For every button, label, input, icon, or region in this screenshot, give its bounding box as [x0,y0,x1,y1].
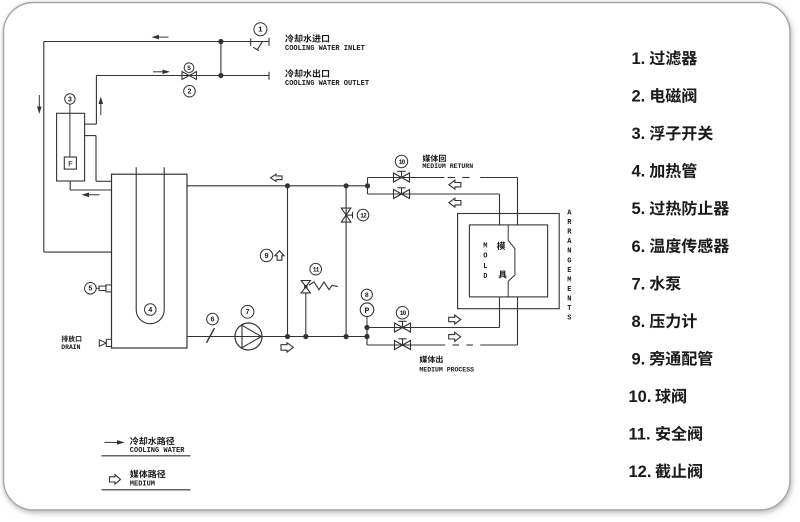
svg-text:M: M [483,243,487,251]
svg-text:9.: 9. [632,350,646,368]
flow arrow down on left pipe [37,95,42,114]
svg-text:S: S [187,65,191,72]
pipe: bottom horizontal into tank [44,251,112,253]
legend item 9 旁通配管 [632,350,713,368]
label circle 10 process [396,307,408,319]
svg-text:1: 1 [258,27,263,35]
flow arrow hollow right process upper [449,315,461,324]
label circle 11 [310,263,322,275]
legend item 2 电磁阀 [632,88,697,106]
svg-text:D: D [483,273,487,281]
flow arrow hollow left return upper [449,180,461,189]
pressure gauge 8 stem [366,316,368,327]
label circle 9 [260,249,272,261]
flow arrow left under float pipe [82,193,100,198]
mold inner box [469,225,547,297]
cooling inlet label [285,34,365,53]
bypass pipe 9 vertical [287,186,289,337]
cooling outlet label [285,69,369,88]
pipe: lower process up to mold [517,297,519,345]
label circle 8 [361,289,372,300]
pipe: left vertical drop [43,42,45,253]
arrangements text [567,210,572,323]
heater element 4 U-tube [136,167,164,323]
svg-text:N: N [567,248,571,256]
junction vertical between inlet and outlet [220,42,222,76]
pipe: upper return branch [368,177,445,179]
safety valve 11 stub [305,293,307,337]
safety valve 11 spring [309,282,338,290]
flow arrow up beside drop pipe [99,97,104,116]
svg-text:E: E [567,286,571,294]
legend underline 2 [102,489,191,491]
pressure gauge 8 dial [360,303,374,317]
end cap outlet [268,72,270,80]
flow arrow left on inlet [152,35,169,40]
junction dot process branch [364,334,369,339]
legend item 8 压力计 [632,313,697,331]
mold outer box [458,214,560,309]
legend item 7 水泵 [632,275,681,293]
float switch stem [69,104,71,157]
label circle 2 [184,85,196,97]
junction dot bypass bottom [285,334,290,339]
pipe: lower return branch [368,193,500,195]
ball valve 10 upper return [394,171,410,182]
svg-text:M: M [567,276,571,284]
svg-text:9: 9 [264,253,268,261]
svg-text:4.: 4. [632,163,646,181]
legend cooling arrow [105,440,125,445]
pipe: upper process up to mold [499,297,501,328]
svg-text:N: N [567,295,571,303]
mold MOLD text [483,243,487,282]
svg-text:DRAIN: DRAIN [61,344,80,351]
junction dot safety stub [303,334,308,339]
legend medium arrow [110,475,121,485]
legend item 12 截止阀 [629,463,703,481]
end cap inlet [268,38,270,46]
junction dot inlet [218,39,223,44]
ball valve 10d lower process [395,339,411,350]
ball valve 10b lower return [394,188,410,199]
legend cooling text [130,437,185,455]
flow arrow hollow right process lower [449,332,461,341]
strainer 1 tick [250,38,252,45]
svg-text:MEDIUM RETURN: MEDIUM RETURN [422,163,473,170]
float switch 3 box [57,113,85,181]
svg-text:E: E [567,267,571,275]
process branch vertical [366,328,369,346]
svg-text:7.: 7. [632,275,646,293]
pipe: upper return down to mold [517,178,519,225]
svg-text:T: T [567,305,571,313]
label circle 12 [357,209,369,221]
junction dot valve12 top [344,183,349,188]
label circle 10 return [395,155,407,167]
svg-text:11.: 11. [629,426,651,444]
svg-text:12.: 12. [629,463,652,481]
tank body [112,174,188,348]
pipe: float chamber bottom drain to tank [70,181,111,190]
pipe: pump suction line [187,336,367,338]
ball valve 10c upper process [395,321,411,332]
legend item 10 球阀 [629,388,687,406]
pipe: float chamber mid stub to tank [85,136,112,182]
legend item 3 浮子开关 [632,125,714,143]
svg-text:COOLING WATER OUTLET: COOLING WATER OUTLET [285,80,369,88]
process labels [419,356,474,374]
stop valve 12 pipe [345,186,347,337]
legend item 4 加热管 [632,163,697,181]
legend item 11 安全阀 [629,426,703,444]
flow arrow hollow left on return line [271,174,283,181]
svg-text:COOLING WATER INLET: COOLING WATER INLET [285,45,365,53]
label circle 5 [85,283,97,295]
svg-text:5.: 5. [632,200,646,218]
legend underline 1 [102,455,191,457]
flow arrow right on outlet [153,70,170,75]
junction dot return branch [365,183,370,188]
float sensor F box [64,157,76,170]
label circle 1 [254,23,267,36]
svg-text:10.: 10. [629,388,652,406]
svg-text:1.: 1. [632,50,646,68]
junction dot bypass top [285,183,290,188]
legend item 1 过滤器 [632,50,698,68]
pipe: outlet drop to float chamber [85,76,97,125]
flow arrow hollow up on bypass [275,251,284,261]
svg-text:COOLING WATER: COOLING WATER [130,447,185,455]
pipe: tank outlet top line [187,185,368,187]
svg-text:G: G [567,257,571,265]
junction dot outlet [218,73,223,78]
svg-text:F: F [68,160,73,170]
label circle 3 [65,94,75,105]
svg-text:8: 8 [365,292,369,300]
pipe: lower process dashed [453,344,518,346]
svg-text:5: 5 [88,286,92,294]
pump 7 [235,323,262,350]
junction dot gauge branch [364,325,369,330]
svg-text:P: P [364,306,369,316]
solenoid valve 2 [182,72,196,80]
svg-text:O: O [483,253,487,261]
svg-text:L: L [483,263,487,271]
svg-text:8.: 8. [632,313,646,331]
return labels [422,155,473,171]
svg-text:MEDIUM: MEDIUM [130,481,155,489]
svg-text:6: 6 [210,317,214,325]
label circle 6 [207,313,219,325]
svg-text:2: 2 [187,89,191,97]
svg-text:6.: 6. [632,238,646,256]
pipe: cooling water outlet line [96,75,269,77]
drain label [61,335,81,350]
label circle 7 [241,305,254,318]
pipe: upper process branch [367,327,500,329]
pipe: cooling water inlet top line [44,41,269,43]
legend item 6 温度传感器 [632,238,730,256]
mold chinese text [497,242,507,279]
strainer 1 leg [253,42,262,51]
flow arrow hollow left return lower [449,198,461,207]
safety valve 11 body [301,281,310,293]
stop valve 12 [341,208,352,222]
pipe: upper return dashed [448,177,518,179]
mold parting line [508,225,515,297]
flow arrow hollow right after pump [281,343,293,352]
overheat protector 5 fitting [96,285,111,292]
legend item 5 过热防止器 [632,200,730,218]
svg-text:4: 4 [148,307,152,315]
legend medium text [130,470,166,489]
pipe: lower return down to mold [499,194,501,225]
solenoid coil S [184,63,194,73]
svg-text:3: 3 [68,96,72,104]
svg-text:S: S [567,315,571,323]
label circle 4 [145,304,157,316]
drain fitting [99,339,111,346]
check valve 6 [207,328,215,343]
pipe: lower process branch [367,344,445,346]
junction dot valve12 bottom [344,334,349,339]
svg-text:7: 7 [245,309,249,317]
return branch vertical [367,178,369,195]
svg-text:3.: 3. [632,125,646,143]
svg-text:MEDIUM PROCESS: MEDIUM PROCESS [419,366,474,373]
svg-text:2.: 2. [632,88,646,106]
